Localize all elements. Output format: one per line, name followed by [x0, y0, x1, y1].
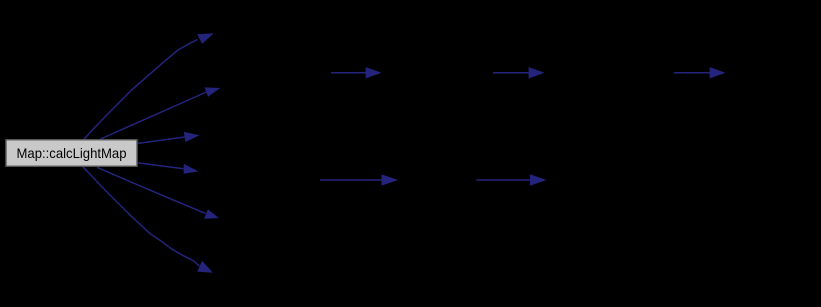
- arrowhead of edge row1 arrow 3: [710, 67, 726, 78]
- edge calcLightMap to callee 2 (straight arrow): [101, 92, 207, 139]
- edge calcLightMap to top callee (curved arrow 1): [84, 40, 198, 140]
- arrowhead 4: [184, 164, 199, 174]
- node Map::calcLightMap box: [6, 140, 137, 166]
- edge calcLightMap to callee 4: [138, 163, 184, 169]
- arrowhead 6: [197, 261, 213, 273]
- edge calcLightMap to callee 3: [138, 137, 185, 143]
- edge row1 arrow 2: [493, 72, 530, 74]
- arrowhead of edge row1 arrow 2: [529, 67, 545, 78]
- arrowhead 2: [205, 87, 221, 96]
- svg-text:Map::calcLightMap: Map::calcLightMap: [17, 145, 127, 161]
- edge row2 arrow 2: [477, 179, 532, 181]
- edge calcLightMap to callee 5: [97, 167, 205, 213]
- arrowhead of edge row2 arrow 2: [530, 174, 547, 186]
- arrowhead of edge row2 arrow 1: [382, 174, 399, 186]
- arrowhead 1: [197, 33, 214, 44]
- edge calcLightMap to bottom callee (curved arrow 6): [83, 167, 199, 266]
- arrowhead of edge row1 arrow 1: [366, 67, 382, 78]
- edge row1 arrow 3: [674, 72, 711, 74]
- arrowhead 3: [184, 132, 200, 142]
- arrowhead 5: [204, 209, 219, 219]
- edge row2 arrow 1: [320, 179, 383, 181]
- edge row1 arrow 1: [331, 72, 367, 74]
